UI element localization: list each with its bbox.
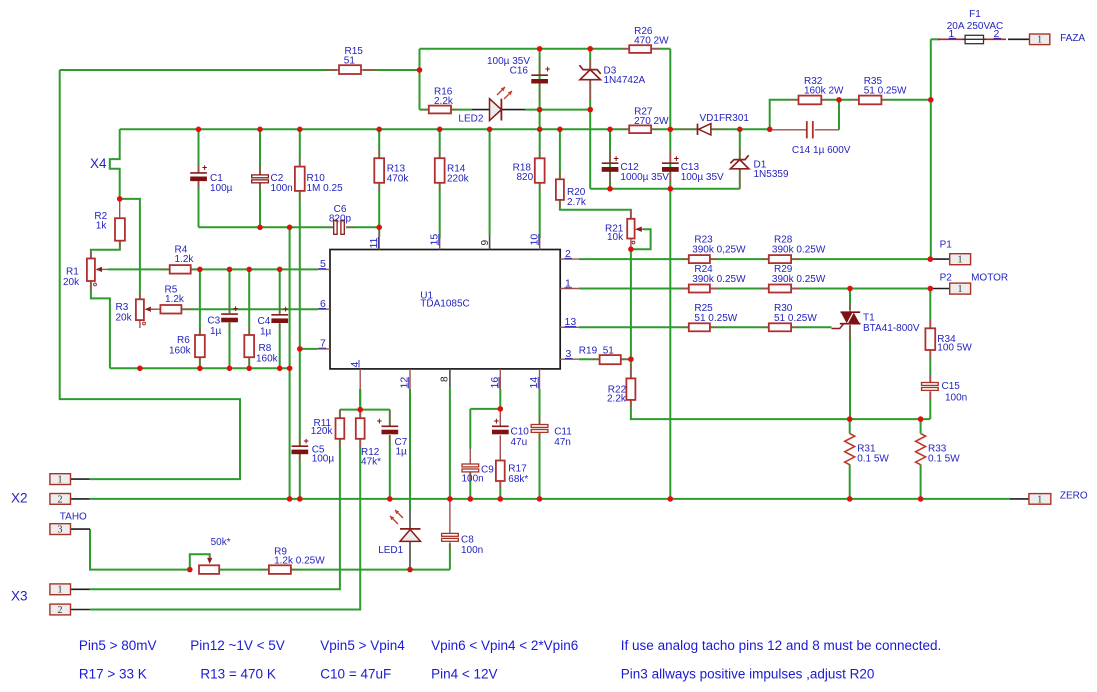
resistor R16 <box>421 87 459 114</box>
svg-text:390k 0.25W: 390k 0.25W <box>692 274 746 285</box>
U1 pin 5 lead <box>318 258 330 270</box>
wire: R2 bottom to R1 top <box>91 241 120 259</box>
svg-text:390k 0.25W: 390k 0.25W <box>772 274 826 285</box>
wire: pin7 stub y=348.9 <box>300 348 318 350</box>
svg-text:+: + <box>304 436 309 446</box>
svg-text:51 0.25W: 51 0.25W <box>864 86 907 97</box>
svg-text:P1: P1 <box>940 240 953 251</box>
svg-text:C14 1µ 600V: C14 1µ 600V <box>792 145 851 156</box>
wire: C11 branch x=539.5 <box>539 389 541 499</box>
svg-text:1µ: 1µ <box>260 327 272 338</box>
svg-text:X2: X2 <box>11 491 28 506</box>
wire: pin5 net y=269.4 <box>108 268 318 270</box>
svg-text:68k*: 68k* <box>508 474 528 485</box>
svg-text:1µ: 1µ <box>396 447 408 458</box>
resistor R26 (470 2W) <box>621 26 669 53</box>
wire: C4 branch x=279.7 <box>279 269 281 368</box>
svg-text:47u: 47u <box>511 437 528 448</box>
connector X2 pin 3 (TAHO) <box>50 512 90 536</box>
wire: FAZA vertical x=930.8 <box>930 39 932 259</box>
capacitor C10 (47u) <box>492 410 529 459</box>
potentiometer R21 (10k) <box>605 210 643 249</box>
resistor R25 (51 0.25W) <box>681 303 738 331</box>
resistor R17 (68k*) <box>496 455 529 488</box>
svg-text:100n: 100n <box>271 183 293 194</box>
capacitor C16 (100u 35V) <box>487 56 550 101</box>
wire: C6 net y=227.3 <box>199 226 380 228</box>
note text row 1 <box>79 638 941 653</box>
svg-text:T1: T1 <box>863 313 875 324</box>
wire: R6 branch x=199.9 <box>199 269 201 368</box>
U1 pin 12 lead <box>399 369 411 389</box>
wire: C16 branch x=539.6 <box>539 49 541 110</box>
wire: 50k to R9 to LED1/C8 y=569.6 <box>219 569 450 571</box>
resistor R22 (2.2k) <box>607 364 635 407</box>
svg-text:P2: P2 <box>940 273 953 284</box>
resistor R9 (1.2k 0.25W) <box>261 547 325 574</box>
resistor R8 (160k) <box>244 327 278 365</box>
svg-text:TDA1085C: TDA1085C <box>420 299 469 310</box>
connector X2 pin 2 <box>50 494 90 506</box>
svg-text:C10: C10 <box>511 427 530 438</box>
wire: D1 branch x=739.8 <box>739 129 741 189</box>
svg-text:470k: 470k <box>387 174 410 185</box>
svg-text:1: 1 <box>958 255 963 266</box>
wire: pin8 branch x=449.9 <box>449 388 451 499</box>
wire: C3 branch x=229.5 <box>229 269 231 368</box>
svg-text:1.2k: 1.2k <box>165 294 185 305</box>
svg-text:50k*: 50k* <box>211 537 231 548</box>
wire: R32/R35 net y=99.8 <box>821 99 931 101</box>
svg-text:Pin4 < 12V: Pin4 < 12V <box>431 667 497 682</box>
svg-text:8: 8 <box>440 376 451 382</box>
wire: C2 branch x=260 <box>259 129 261 227</box>
svg-text:160k: 160k <box>256 354 279 365</box>
connector X2 pin 1 <box>50 474 90 486</box>
resistor R33 (0.1 5W zigzag) <box>916 434 961 465</box>
svg-text:390k 0,25W: 390k 0,25W <box>692 244 746 255</box>
svg-text:1N5359: 1N5359 <box>754 169 789 180</box>
U1 pin 8 lead (grey) <box>440 369 451 388</box>
svg-text:390k 0.25W: 390k 0.25W <box>772 244 826 255</box>
LED D2 (LED2) <box>458 87 525 125</box>
wire: pin3 net y=359.2 <box>579 358 631 360</box>
U1 pin 10 lead <box>529 234 541 250</box>
capacitor C1 (100u) <box>190 163 232 195</box>
junction dots tacho net <box>187 567 413 573</box>
wire: ground bus drop x=289.6 <box>289 227 291 499</box>
wire: X4/R2/R3 riser x=119.7 with X4 notch <box>110 129 120 199</box>
wire: pin2 net y=259.1 <box>579 258 931 260</box>
capacitor C9 (100n) <box>462 449 495 485</box>
svg-text:TAHO: TAHO <box>60 512 87 523</box>
wire: vertical x=419.5 R15 to R16 <box>419 49 421 110</box>
svg-text:+: + <box>202 163 207 173</box>
svg-text:R6: R6 <box>177 335 190 346</box>
svg-text:1: 1 <box>58 585 63 596</box>
fuse F1 (20A 250VAC) <box>938 9 1006 44</box>
svg-text:R3: R3 <box>116 302 129 313</box>
junction dots on ZERO bus y=498.9 <box>287 496 924 502</box>
svg-text:C15: C15 <box>942 381 961 392</box>
resistor R29 (390k 0.25W) <box>761 264 826 293</box>
connector X3 pin 1 <box>50 584 90 596</box>
resistor R30 (51 0.25W) <box>761 303 817 331</box>
svg-text:C4: C4 <box>258 316 271 327</box>
wire: R14/pin15 branch x=439.7 <box>439 129 441 238</box>
svg-text:2: 2 <box>58 494 63 505</box>
U1 pin 15 lead <box>429 234 441 250</box>
wire: X2-1 loop to R15 (left big loop) <box>60 70 240 479</box>
svg-text:C16: C16 <box>510 66 529 77</box>
capacitor C15 (100n) <box>922 375 968 404</box>
wire: P2/R34/C15 vertical x=930.3 <box>929 289 931 420</box>
svg-text:220k: 220k <box>447 174 470 185</box>
svg-text:51 0.25W: 51 0.25W <box>774 313 817 324</box>
wire: C14/R32 left riser x=769.7 <box>770 100 799 130</box>
junction dots on top nets <box>417 46 934 112</box>
svg-text:R17 > 33 K: R17 > 33 K <box>79 667 147 682</box>
svg-text:270 2W: 270 2W <box>634 116 669 127</box>
capacitor C6 (820p) <box>326 204 356 234</box>
resistor R15 <box>325 46 375 74</box>
resistor R34 (100 5W) <box>925 320 972 358</box>
wire: pin9 branch x=489.6 <box>489 129 491 236</box>
wire: R33 branch x=920.6 <box>920 419 922 499</box>
svg-text:9: 9 <box>480 240 491 246</box>
op-amp U1 TDA1085C chip body <box>330 250 560 369</box>
wire: ZERO bus y=498.9 <box>90 498 1010 500</box>
svg-text:+: + <box>283 304 288 314</box>
U1 pin 11 lead <box>368 227 380 249</box>
svg-text:C3: C3 <box>207 316 220 327</box>
svg-text:MOTOR: MOTOR <box>971 273 1008 284</box>
svg-text:1N4742A: 1N4742A <box>604 75 646 86</box>
wire: R26 right drop to VD1 node <box>669 49 671 129</box>
U1 pin 4 lead <box>349 360 361 389</box>
wire: R31 branch x=849.7 <box>849 419 851 499</box>
svg-text:100n: 100n <box>461 545 483 556</box>
svg-text:0.1 5W: 0.1 5W <box>928 454 960 465</box>
svg-text:51: 51 <box>344 56 356 67</box>
U1 pin 1 lead <box>560 277 579 289</box>
svg-text:100n: 100n <box>945 393 967 404</box>
resistor R31 (0.1 5W zigzag) <box>845 434 890 465</box>
svg-text:20A 250VAC: 20A 250VAC <box>947 21 1004 32</box>
svg-text:20k: 20k <box>116 313 133 324</box>
U1 pin 13 lead <box>560 316 579 328</box>
wire: TAHO net to 50k pot <box>90 529 190 570</box>
U1 pin 7 lead <box>318 338 330 350</box>
svg-text:C8: C8 <box>461 535 474 546</box>
junction dots on VCC bus y=129.3 <box>196 127 773 133</box>
svg-text:+: + <box>494 416 499 426</box>
svg-text:X4: X4 <box>90 156 107 171</box>
svg-text:+: + <box>377 416 382 426</box>
svg-text:If use analog tacho pins 12 an: If use analog tacho pins 12 and 8 must b… <box>621 638 941 653</box>
svg-text:820: 820 <box>517 172 534 183</box>
potentiometer 50k* <box>199 537 231 574</box>
svg-text:FAZA: FAZA <box>1060 33 1085 44</box>
svg-text:1: 1 <box>1037 35 1042 46</box>
wire: T1 vertical x=850 <box>849 289 851 419</box>
wire: C12 branch x=610 <box>609 129 611 189</box>
potentiometer R3 (20k) <box>116 292 158 328</box>
wire: X3-1 net to R11 bottom <box>90 439 340 590</box>
svg-text:+: + <box>674 154 679 164</box>
resistor R10 (1M 0.25) <box>295 158 343 199</box>
svg-text:1k: 1k <box>96 221 108 232</box>
U1 pin 3 lead <box>560 348 579 360</box>
wire: C1 branch x=198.5 <box>198 129 200 227</box>
resistor R4 (1.2k) <box>160 245 201 274</box>
svg-text:2.2k: 2.2k <box>607 394 627 405</box>
wire: 50k wiper loop <box>190 554 210 569</box>
svg-text:2.7k: 2.7k <box>567 197 587 208</box>
wire: R21 bottom to R19/R22 x=630.9 <box>631 249 930 419</box>
wire: R20 branch and link to R21 <box>560 129 631 219</box>
svg-text:LED2: LED2 <box>458 114 483 125</box>
svg-text:51 0.25W: 51 0.25W <box>694 313 737 324</box>
svg-text:1M 0.25: 1M 0.25 <box>307 183 344 194</box>
U1 pin 14 lead <box>528 369 540 389</box>
wire: R16/LED2 net y=109.6 <box>420 109 591 111</box>
resistor R28 (390k 0.25W) <box>761 235 826 264</box>
svg-text:BTA41-800V: BTA41-800V <box>863 323 920 334</box>
resistor R11 (120k) <box>311 410 345 447</box>
note text row 2 <box>79 667 875 682</box>
svg-text:R1: R1 <box>66 267 79 278</box>
connector ZERO <box>1010 491 1088 506</box>
svg-text:X3: X3 <box>11 589 28 604</box>
wire: pin13 net y=327.3 <box>579 326 832 328</box>
wire: pin6 net y=309.2 <box>181 308 318 310</box>
capacitor C12 (1000u 35V) <box>602 152 670 183</box>
wire: R13/pin11 branch x=379.2 <box>378 129 380 237</box>
svg-text:1: 1 <box>1037 494 1042 505</box>
connector X3 pin 2 <box>50 604 90 616</box>
resistor R5 (1.2k) <box>150 284 192 313</box>
svg-text:100µ: 100µ <box>210 183 233 194</box>
svg-text:ZERO: ZERO <box>1060 491 1088 502</box>
triac T1 (BTA41-800V) <box>832 303 920 340</box>
wire: R21 wiper loop <box>631 229 651 249</box>
resistor R35 (51 0.25W) <box>850 76 907 104</box>
wire: X3-2 net to R12 bottom <box>90 439 361 610</box>
svg-text:470 2W: 470 2W <box>634 36 669 47</box>
svg-text:160k 2W: 160k 2W <box>804 86 844 97</box>
capacitor C7 (1u) <box>377 410 408 458</box>
svg-text:VD1FR301: VD1FR301 <box>700 113 750 124</box>
capacitor C3 (1u) <box>207 304 238 338</box>
wire: C9 branch lower x=470.3 <box>469 473 471 499</box>
capacitor C14 (1u 600V) <box>770 121 851 156</box>
svg-text:160k: 160k <box>169 346 192 357</box>
svg-text:120k: 120k <box>311 426 334 437</box>
wire: C10/R17 chain x=500.3 <box>499 482 501 499</box>
wire: pin4 lead green part <box>359 389 361 410</box>
resistor R23 (390k 0,25W) <box>681 235 746 264</box>
wire: pin16 net y=408.9 <box>470 389 500 449</box>
zener diode D1 (1N5359) <box>730 148 789 189</box>
diode VD1 (FR301) <box>680 113 749 135</box>
wire: C8 branch x=449.9 <box>449 544 451 570</box>
svg-text:R17: R17 <box>508 464 527 475</box>
wire: LED2 net to VCC bus link x=539.6 <box>539 110 541 130</box>
svg-text:3: 3 <box>58 525 63 536</box>
resistor R12 (47k*) <box>356 410 381 468</box>
capacitor C2 (100n) <box>252 165 293 194</box>
potentiometer R1 (20k) <box>63 252 108 290</box>
wire: R10/C5 branch x=299.8 <box>299 129 301 499</box>
wire: main VCC bus y=129.3 <box>120 128 770 130</box>
wire: R1 bottom to ground bus <box>91 281 110 368</box>
junction dots on lower supply rail <box>607 186 673 192</box>
U1 pin 16 lead <box>489 369 501 389</box>
resistor R13 (470k) <box>374 150 409 191</box>
svg-text:1.2k: 1.2k <box>175 254 195 265</box>
svg-text:47k*: 47k* <box>361 457 381 468</box>
U1 pin 2 lead <box>560 248 579 260</box>
svg-text:1: 1 <box>58 475 63 486</box>
svg-text:1.2k 0.25W: 1.2k 0.25W <box>274 556 325 567</box>
capacitor C8 (100n) <box>442 499 484 556</box>
wire: pin12/LED1 branch x=410 <box>409 389 411 509</box>
svg-text:47n: 47n <box>554 437 571 448</box>
svg-text:LED1: LED1 <box>378 545 403 556</box>
svg-text:1000µ 35V: 1000µ 35V <box>620 172 669 183</box>
svg-text:+: + <box>233 304 238 314</box>
capacitor C5 (100u) <box>292 436 335 465</box>
svg-text:+: + <box>545 64 550 74</box>
wire: C13 / ground link x=670.3 <box>669 129 671 499</box>
zener diode D3 (1N4742A) <box>580 59 646 100</box>
svg-text:10k: 10k <box>607 232 624 243</box>
svg-text:20k: 20k <box>63 277 80 288</box>
svg-text:C10 = 47uF: C10 = 47uF <box>320 667 391 682</box>
svg-text:Vpin6 < Vpin4 < 2*Vpin6: Vpin6 < Vpin4 < 2*Vpin6 <box>431 638 578 653</box>
U1 pin 6 lead <box>318 298 330 310</box>
resistor R2 (1k) <box>94 199 125 247</box>
connector FAZA <box>1008 33 1085 46</box>
LED D1 (LED1) <box>378 509 420 570</box>
wire: pin1 net y=288.5 <box>579 288 931 290</box>
wire: R15 net y=70 <box>60 69 420 71</box>
wire: C14 right riser x=839 <box>838 100 840 130</box>
svg-text:C11: C11 <box>554 427 572 438</box>
svg-text:2.2k: 2.2k <box>434 96 454 107</box>
resistor R18 (820) <box>513 150 545 191</box>
connector P1 <box>930 240 970 266</box>
wire: D3 branch x=590.2 down to lower rail <box>589 49 591 189</box>
junction dots left section <box>117 196 382 371</box>
svg-text:Pin3 allways positive impulses: Pin3 allways positive impulses ,adjust R… <box>621 667 875 682</box>
wire: R8 branch x=249.2 <box>248 269 250 368</box>
junction dots pin4/pin16 nets <box>357 406 503 412</box>
svg-text:100µ: 100µ <box>312 454 335 465</box>
resistor R6 (160k) <box>169 327 205 364</box>
junction dots right section <box>628 246 933 422</box>
wire: C7 branch x=389.8 <box>389 410 391 499</box>
svg-text:100n: 100n <box>462 474 484 485</box>
wire: pin4 net y=409.6 <box>340 389 390 418</box>
wire: lower supply rail y=188.8 <box>590 188 740 190</box>
wire: ground bus y=368.3 <box>110 367 290 369</box>
resistor R24 (390k 0.25W) <box>681 264 746 293</box>
svg-text:820p: 820p <box>329 214 352 225</box>
capacitor C4 (1u) <box>258 304 289 338</box>
svg-text:100 5W: 100 5W <box>937 343 972 354</box>
svg-text:R8: R8 <box>259 343 272 354</box>
svg-text:0.1 5W: 0.1 5W <box>857 454 889 465</box>
U1 pin 9 lead (grey) <box>480 236 491 250</box>
wire: R2 to R3 link y=198.9 <box>120 199 140 299</box>
svg-text:Pin5 > 80mV: Pin5 > 80mV <box>79 638 157 653</box>
resistor R32 (160k 2W) <box>790 76 844 104</box>
wire: FAZA top y=39.3 <box>931 38 940 40</box>
svg-text:100µ 35V: 100µ 35V <box>681 172 724 183</box>
svg-text:Vpin5 > Vpin4: Vpin5 > Vpin4 <box>320 638 405 653</box>
svg-text:1: 1 <box>958 284 963 295</box>
connector P2 (MOTOR) <box>930 273 1008 296</box>
svg-text:R13 = 470 K: R13 = 470 K <box>200 667 275 682</box>
resistor R20 (2.7k) <box>556 171 587 208</box>
wire: top net A y=48.8 (C16+/D3/R26) <box>420 48 671 50</box>
svg-text:+: + <box>614 154 619 164</box>
resistor R14 (220k) <box>435 150 470 191</box>
capacitor C11 (47n) <box>531 415 572 448</box>
svg-text:1µ: 1µ <box>210 326 222 337</box>
svg-text:R19 51: R19 51 <box>579 346 614 357</box>
capacitor C13 (100u 35V) <box>662 152 724 183</box>
wire: R18/pin10 branch x=539.7 <box>539 129 541 238</box>
resistor R27 (270 2W) <box>621 107 669 134</box>
resistor R19 (51) <box>579 346 628 365</box>
svg-text:F1: F1 <box>969 9 981 20</box>
svg-text:2: 2 <box>58 605 63 616</box>
svg-text:Pin12 ~1V < 5V: Pin12 ~1V < 5V <box>190 638 285 653</box>
